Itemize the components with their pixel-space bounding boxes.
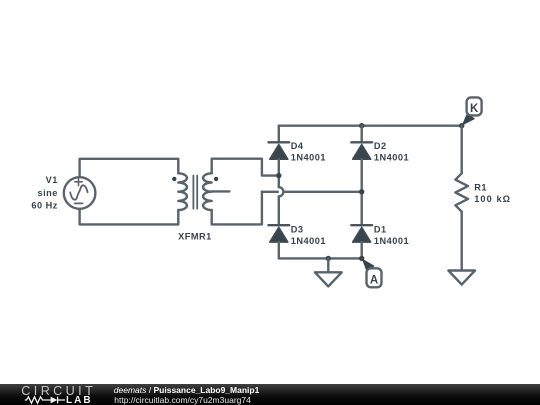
junction dot middle rail [359, 189, 364, 194]
label D2 [374, 141, 409, 163]
svg-text:D3: D3 [291, 224, 304, 234]
wire middle rail [262, 191, 362, 193]
svg-text:1N4001: 1N4001 [374, 153, 409, 163]
label V1 sine 60 Hz [31, 175, 58, 211]
label D3 [291, 224, 326, 246]
node A flag [362, 258, 382, 287]
voltage source V1 [64, 177, 96, 209]
junction dot node K [459, 123, 464, 128]
svg-text:100 kΩ: 100 kΩ [474, 194, 511, 204]
footer bar [0, 384, 540, 405]
label R1 100 kOhm [474, 182, 511, 204]
svg-text:K: K [470, 103, 479, 115]
wire right branch upper [361, 126, 363, 143]
junction dot ground tap [326, 256, 331, 261]
svg-text:A: A [370, 274, 378, 286]
ground (bridge) [315, 272, 342, 286]
CircuitLab logo [21, 386, 96, 397]
wire right branch middle [361, 159, 363, 225]
svg-text:60 Hz: 60 Hz [31, 201, 58, 211]
wire D3 to bottom rail [278, 242, 280, 258]
svg-text:R1: R1 [474, 182, 487, 192]
wire left branch lower [278, 196, 280, 225]
transformer XFMR1 [172, 173, 229, 210]
ground (R1) [448, 271, 475, 285]
wire top rail [279, 124, 462, 126]
svg-text:1N4001: 1N4001 [374, 236, 409, 246]
node K flag [462, 97, 482, 125]
wire XFMR1 primary bottom to V1 bottom [80, 210, 179, 225]
label D1 [374, 224, 409, 246]
junction dot secondary top [276, 173, 281, 178]
wire bottom rail [279, 257, 362, 259]
wire XFMR1 secondary top to left branch [212, 159, 279, 176]
wire ground stem [327, 258, 329, 272]
svg-text:XFMR1: XFMR1 [178, 231, 212, 241]
label D4 [291, 141, 326, 163]
wire hop over middle rail [279, 187, 284, 196]
diode D4 [268, 142, 289, 159]
junction dot top rail right branch [359, 123, 364, 128]
svg-text:D2: D2 [374, 141, 387, 151]
resistor R1 [455, 173, 468, 211]
diode D2 [351, 142, 372, 159]
footer url text [114, 396, 251, 405]
wire left branch upper [278, 126, 280, 143]
svg-text:sine: sine [38, 188, 58, 198]
svg-text:V1: V1 [46, 175, 58, 185]
svg-text:1N4001: 1N4001 [291, 236, 326, 246]
wire K node to R1 [461, 126, 463, 174]
footer title text [114, 386, 260, 395]
svg-text:D4: D4 [291, 141, 304, 151]
svg-text:1N4001: 1N4001 [291, 153, 326, 163]
wire XFMR1 secondary bottom to middle rail [212, 192, 262, 225]
wire D1 to bottom rail [361, 242, 363, 258]
wire left branch middle [278, 159, 280, 187]
diode D3 [268, 225, 289, 242]
wire R1 to ground [461, 212, 463, 271]
wire V1 top to XFMR1 primary top [80, 159, 179, 177]
svg-text:D1: D1 [374, 224, 387, 234]
junction dot node A [359, 256, 364, 261]
diode D1 [351, 225, 372, 242]
